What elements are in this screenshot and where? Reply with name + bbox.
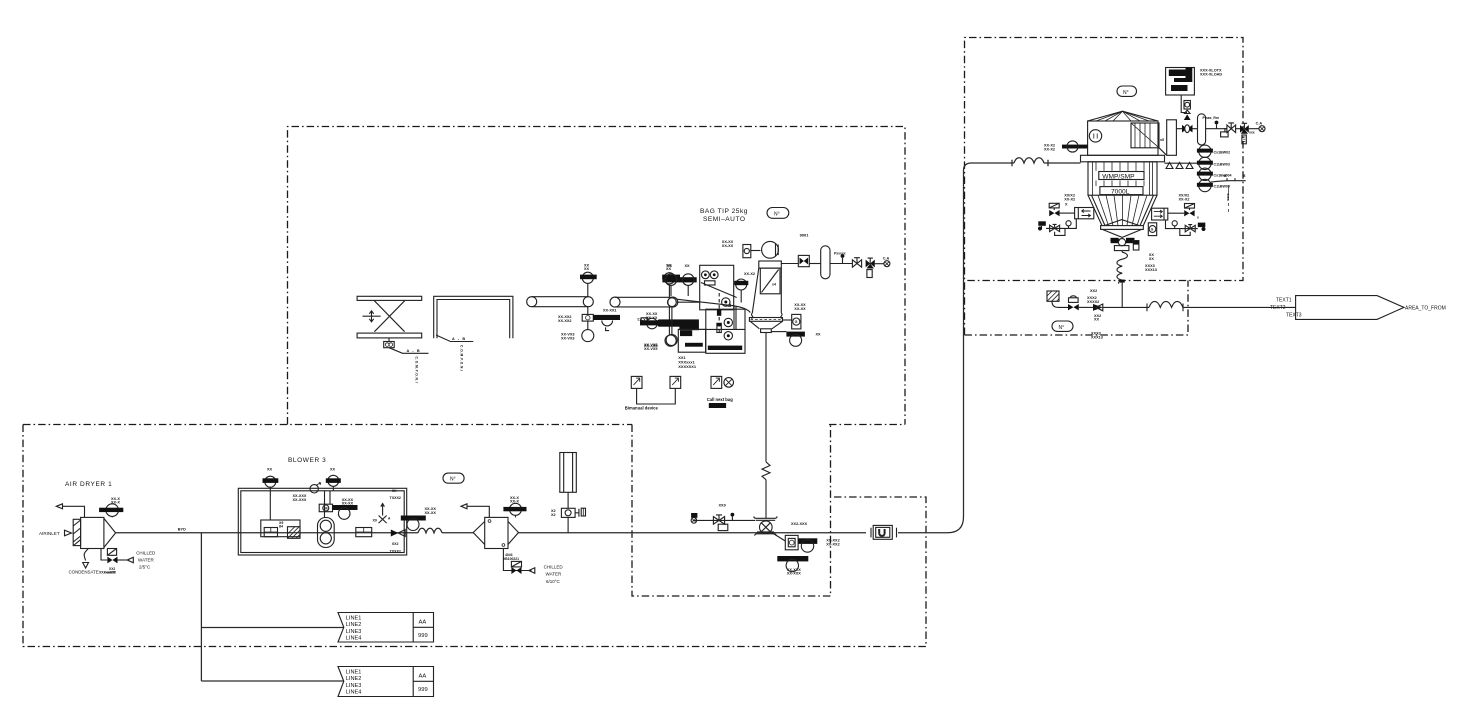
svg-text:LINE2: LINE2 — [346, 676, 362, 682]
wire vessel outlet — [1176, 128, 1182, 130]
svg-text:6/10°C: 6/10°C — [546, 579, 561, 584]
relief triangles — [1184, 110, 1190, 113]
svg-text:C11BW03: C11BW03 — [1214, 162, 1230, 166]
wire chilled water to HX — [503, 549, 531, 571]
svg-text:B: B — [1243, 174, 1246, 178]
motor circle under conveyor2 — [668, 326, 670, 335]
silencer capsule vertical — [821, 246, 830, 279]
bimanual button 2 — [670, 376, 681, 388]
wire chilled water stem — [101, 549, 107, 561]
filter-silencer box 84 — [261, 520, 300, 537]
filter cartridge box w/ diagonal — [1131, 123, 1159, 148]
node pressure dot — [731, 513, 735, 517]
node air inlet arrow — [65, 530, 72, 536]
wire twin drop to motor — [325, 491, 331, 518]
svg-text:XX-X2: XX-X2 — [1044, 147, 1055, 151]
display instrument box — [1166, 68, 1195, 96]
blower lobes pump — [318, 518, 335, 548]
node N oval tag vessel — [1117, 86, 1137, 96]
supply arrow — [529, 568, 535, 573]
instrument bar+circle right of hopper — [786, 332, 805, 337]
vent circle with arrow — [310, 485, 318, 493]
svg-text:N°: N° — [1123, 90, 1129, 96]
box under 3-way — [867, 270, 872, 278]
wire jog from circles to boundary — [1211, 178, 1246, 182]
wire filter outlet to silencer — [781, 263, 798, 265]
svg-text:XX-VX3: XX-VX3 — [561, 336, 575, 340]
valve chilled water (solid) — [107, 557, 117, 564]
solenoid Z box right — [1185, 204, 1195, 209]
wire HX vent with arrow — [467, 506, 489, 517]
check valve — [391, 530, 399, 537]
node purge source — [691, 513, 697, 518]
discharge valve cluster — [1111, 238, 1119, 243]
svg-text:AA: AA — [419, 674, 427, 680]
heat exchanger left cone — [473, 522, 485, 545]
vessel cone — [1088, 195, 1157, 225]
bag filter top plenum — [759, 261, 782, 268]
wire pipe coil to HX left apex — [442, 532, 473, 534]
svg-text:CHILLED: CHILLED — [136, 550, 156, 555]
blower package boundary double box — [238, 488, 406, 555]
valve fluidization right (solid) — [1184, 210, 1194, 216]
svg-text:TXXX2: TXXX2 — [390, 550, 401, 554]
wire vertical drop to LINE flags — [200, 533, 202, 681]
svg-text:N°: N° — [774, 211, 780, 217]
svg-text:999: 999 — [418, 633, 428, 639]
twin instruments top-left of station — [662, 277, 696, 282]
boundary lower strip under vessel box — [965, 281, 1189, 336]
wire condensate drain — [84, 549, 88, 561]
svg-text:G: G — [1151, 228, 1154, 232]
pilot box w/ circle — [1184, 101, 1190, 110]
rotary valve bottom flange — [755, 532, 777, 536]
svg-text:LINE4: LINE4 — [346, 690, 362, 696]
hood enclosure — [434, 296, 513, 338]
wire to exhaust silencer — [1193, 128, 1198, 130]
svg-text:WATER: WATER — [138, 557, 154, 562]
svg-text:LINE4: LINE4 — [346, 636, 362, 642]
svg-text:AA: AA — [419, 620, 427, 626]
SEC-VRIGHT — [1038, 194, 1206, 236]
gauge dot left — [1066, 221, 1071, 226]
svg-text:XX: XX — [267, 468, 273, 472]
wire main air pipe from dryer to HX — [116, 532, 418, 534]
valve gate w/ stem — [852, 260, 861, 267]
instrument circle left lower — [666, 334, 677, 345]
svg-text:X9: X9 — [373, 519, 377, 523]
svg-text:XXXXXX1: XXXXXX1 — [678, 364, 697, 369]
svg-text:XX-X2: XX-X2 — [1064, 198, 1075, 202]
valve transfer 2 (check) — [1093, 304, 1103, 311]
svg-text:Call next bag: Call next bag — [707, 397, 734, 402]
svg-text:WATER: WATER — [546, 572, 562, 577]
SEC-LIFT — [357, 296, 513, 383]
line designation flag 2 — [338, 667, 434, 697]
conveyor black bar bottom — [708, 346, 742, 350]
svg-text:XX-X: XX-X — [111, 501, 120, 505]
svg-text:A - B: A - B — [407, 349, 420, 353]
three-way valve solid — [866, 260, 875, 268]
vessel roof cone — [1088, 111, 1158, 121]
scissor lift X arms — [374, 301, 404, 332]
svg-text:XX-XX2: XX-XX2 — [558, 319, 572, 323]
instrument with black bar beside motor — [333, 505, 358, 510]
svg-text:C11BW05: C11BW05 — [1214, 185, 1230, 189]
motor M box — [319, 504, 332, 512]
wire band to filter-line circles — [1165, 162, 1199, 164]
bag chute slope — [701, 283, 737, 298]
instrument above conveyor1 — [582, 272, 593, 283]
wire drop pipe from bag filter — [765, 333, 767, 462]
load cell triangles under band — [1166, 163, 1193, 169]
svg-text:Pmax_Rm: Pmax_Rm — [1203, 116, 1219, 120]
box under 3-way vent — [1242, 135, 1246, 144]
wire to tee under vessel — [1103, 306, 1149, 308]
node air supply circle-x — [884, 261, 890, 267]
SEC-MID — [691, 333, 896, 576]
heat exchanger HX1 body — [485, 517, 508, 548]
bag filter body — [751, 268, 782, 318]
svg-text:N°: N° — [1059, 325, 1065, 331]
wire stack to valve — [567, 492, 569, 508]
svg-text:LINE1: LINE1 — [346, 616, 362, 622]
svg-text:XX-X2: XX-X2 — [744, 272, 755, 276]
svg-text:XX-XX: XX-XX — [794, 307, 806, 311]
svg-text:X2: X2 — [551, 513, 556, 517]
hose connection right — [1198, 223, 1206, 228]
instrument PI above blower left — [265, 476, 276, 487]
filter cartridge with diagonal — [760, 268, 780, 294]
svg-text:XXX13: XXX13 — [1145, 268, 1157, 272]
wire bimanual bracket — [637, 388, 676, 404]
off-page connector AREA_TO_FROM — [1296, 296, 1404, 320]
support band — [1081, 155, 1165, 162]
actuator S box on rotary valve — [770, 532, 785, 542]
air dryer AD1 body — [81, 517, 104, 548]
sight glass circle — [1089, 130, 1101, 142]
svg-text:WMP/SMP: WMP/SMP — [1102, 173, 1135, 180]
line designation flag 1 — [338, 613, 434, 643]
svg-text:BAG TIP 25kg: BAG TIP 25kg — [700, 208, 748, 215]
svg-text:Cx1BW02: Cx1BW02 — [1214, 150, 1231, 154]
svg-text:LINE3: LINE3 — [346, 683, 362, 689]
actuator flange at right — [575, 509, 579, 517]
svg-text:XX-XX: XX-XX — [646, 316, 658, 320]
up-down stroke symbol — [363, 311, 381, 322]
wire from hatch sq to valves — [1052, 301, 1068, 307]
svg-text:Pxxxxx: Pxxxxx — [834, 252, 846, 256]
svg-text:Bimanual device: Bimanual device — [625, 406, 659, 411]
svg-text:TXXX2: TXXX2 — [390, 496, 401, 500]
wire leader A-B hood — [436, 335, 473, 342]
solenoid box chilled water — [107, 549, 116, 556]
svg-text:XX-XX1: XX-XX1 — [603, 309, 617, 313]
boundary notch middle box — [632, 425, 831, 597]
svg-text:A - B: A - B — [452, 337, 465, 341]
battery limit box BAG TIP area — [288, 127, 906, 425]
svg-text:XX·XX: XX·XX — [1110, 238, 1121, 242]
wire leader A-B lift — [389, 348, 429, 354]
svg-text:x4: x4 — [772, 283, 776, 287]
instrument circle near chute — [736, 279, 747, 290]
wire silencer to vents — [1206, 128, 1227, 130]
roller table box left — [678, 329, 705, 352]
node air circle-x — [1259, 126, 1265, 132]
svg-text:xxx: xxx — [1249, 131, 1255, 135]
lift actuator box — [388, 338, 390, 342]
filter line circle 2 — [1199, 157, 1211, 169]
svg-text:XX-X: XX-X — [510, 500, 519, 504]
transfer line lower strip: hatched square — [1047, 291, 1059, 301]
wire left aeration loop — [1046, 219, 1076, 229]
flex zigzag on drop pipe — [762, 462, 770, 480]
gate valve — [1227, 125, 1236, 133]
svg-text:XX: XX — [685, 264, 691, 268]
cone flange band — [1101, 226, 1144, 230]
air dryer AD1 hatched inlet section — [73, 519, 80, 545]
valve in square (fan discharge) — [798, 255, 809, 266]
svg-text:999: 999 — [418, 687, 428, 693]
valve box with circle — [561, 508, 575, 517]
svg-text:XX9: XX9 — [719, 504, 726, 508]
instrument PI above motor — [328, 475, 339, 486]
svg-text:XXX-XLOAD: XXX-XLOAD — [1200, 72, 1222, 76]
svg-text:TEXT3: TEXT3 — [1286, 313, 1302, 319]
valve transfer 1 (solid) — [1068, 304, 1079, 310]
SEC-PIPES — [116, 158, 1081, 681]
node N oval tag bag tip — [767, 208, 789, 219]
wire riser curve up to vessel inlet line — [948, 163, 1015, 533]
vessel body WMP/SMP 7000L — [1088, 162, 1157, 195]
svg-text:C.A: C.A — [883, 257, 890, 261]
svg-text:XXX13: XXX13 — [1091, 335, 1103, 339]
valve purge with stem — [713, 517, 724, 525]
svg-text:CONDENSATE: CONDENSATE — [69, 570, 99, 575]
outlet housing right — [1167, 120, 1177, 156]
svg-text:AIR DRYER 1: AIR DRYER 1 — [65, 481, 112, 488]
SEC-FLAGS — [338, 613, 434, 697]
filter hopper flange — [749, 318, 782, 322]
svg-text:C.A: C.A — [1256, 121, 1263, 125]
svg-text:LINE3: LINE3 — [346, 629, 362, 635]
SEC-VESSEL — [1044, 68, 1265, 308]
svg-text:N°: N° — [450, 477, 456, 483]
svg-text:XX: XX — [667, 264, 673, 268]
svg-text:XX: XX — [584, 267, 590, 271]
svg-text:TEXT2: TEXT2 — [1270, 305, 1286, 311]
svg-text:x: x — [1197, 216, 1199, 220]
label box WMP/SMP — [1099, 172, 1144, 180]
svg-text:XXXX2: XXXX2 — [1087, 300, 1099, 304]
svg-text:2/5°C: 2/5°C — [139, 565, 151, 570]
wire chilled water supply w/ arrow — [118, 559, 130, 561]
butterfly valve on outlet — [1182, 125, 1193, 133]
svg-text:AIRINLET: AIRINLET — [39, 531, 60, 536]
inline filter hatched square — [288, 527, 301, 539]
instrument TI after blower — [401, 516, 426, 521]
call button 3 w/ lamp — [711, 376, 722, 388]
vibrator on filter — [792, 314, 801, 329]
filter line circle 4 — [1199, 179, 1211, 191]
wire flex coil after blower — [418, 528, 442, 533]
svg-text:XX2: XX2 — [392, 542, 399, 546]
pressure dot on line — [1215, 121, 1219, 125]
svg-text:XX: XX — [816, 333, 822, 337]
sensor circle with dot mid station — [722, 298, 730, 306]
rotary valve RV1 — [760, 521, 773, 534]
instrument bar+circle far left — [647, 318, 658, 329]
wire right aeration loop — [1166, 220, 1198, 229]
svg-text:SEMI–AUTO: SEMI–AUTO — [703, 216, 746, 223]
hose connection left — [1038, 221, 1046, 226]
svg-text:LINE2: LINE2 — [346, 622, 362, 628]
bag dump station lower box — [706, 309, 745, 353]
wire valve to main pipe — [567, 517, 569, 532]
svg-text:AREA_TO_FROM: AREA_TO_FROM — [1405, 306, 1446, 312]
gauge dot right — [1172, 221, 1177, 226]
wire transfer flex coil — [1147, 301, 1183, 311]
svg-text:BYD: BYD — [178, 528, 186, 532]
wire branch to flag 1 — [201, 627, 343, 629]
heat exchanger right cone — [508, 522, 519, 545]
filter line circle 1 — [1199, 145, 1211, 157]
svg-text:XX: XX — [1149, 257, 1155, 261]
svg-text:BLOWER 3: BLOWER 3 — [288, 457, 326, 464]
svg-text:X: X — [1065, 203, 1068, 207]
wire vent line with arrow — [63, 506, 85, 517]
label box 7000L — [1100, 187, 1143, 195]
svg-text:x5: x5 — [1160, 138, 1164, 142]
instrument above conveyor2 — [664, 273, 675, 284]
SEC-AREAFLAG — [1047, 289, 1446, 339]
instrument TI on HX — [510, 503, 522, 515]
rotary valve top flange — [754, 517, 778, 521]
valve chilled water HX (solid) — [511, 567, 521, 574]
inline sight glass body — [873, 525, 892, 539]
solenoid box — [511, 561, 521, 567]
node N oval tag — [443, 473, 464, 483]
svg-text:CHILLED: CHILLED — [544, 565, 564, 570]
svg-text:TEXT1: TEXT1 — [1276, 297, 1292, 303]
svg-text:XX-XX: XX-XX — [722, 244, 734, 248]
drive box under conveyor1 — [587, 307, 589, 315]
conveyor 2 — [615, 297, 673, 307]
vibrator on cone — [1148, 223, 1156, 236]
svg-text:C.O.M.P.O.N.I: C.O.M.P.O.N.I — [415, 357, 419, 384]
wire purge branch to rotary valve — [693, 519, 755, 521]
svg-text:A: A — [388, 517, 391, 521]
relief valve with up arrow — [379, 504, 387, 524]
svg-text:XX2-XXX: XX2-XXX — [791, 522, 808, 526]
svg-text:9001: 9001 — [800, 233, 810, 238]
pressure dot — [841, 254, 845, 258]
svg-text:XX-XXX: XX-XXX — [787, 572, 801, 576]
right fluidization nozzle box — [1152, 208, 1168, 220]
node N oval tag lower — [1052, 321, 1073, 331]
instrument bar+circle right of S box — [798, 538, 817, 544]
inline device box right — [356, 528, 372, 537]
svg-text:XX: XX — [330, 468, 336, 472]
stack silencer vertical — [560, 453, 577, 493]
sensors circles in lower box — [724, 318, 732, 326]
svg-text:XX-XX: XX-XX — [794, 303, 806, 307]
svg-text:XX: XX — [1094, 318, 1100, 322]
bimanual button 1 — [631, 376, 642, 388]
fan aux box — [743, 245, 751, 258]
svg-text:Cx1Bw004: Cx1Bw004 — [1214, 173, 1232, 177]
battery limit bottom-left room boundary — [23, 424, 905, 426]
SEC-BOUND — [23, 38, 1243, 647]
svg-text:XX: XX — [392, 489, 397, 493]
svg-text:84: 84 — [279, 525, 283, 529]
conveyor 1 — [532, 297, 589, 307]
scissor lift bottom platform — [357, 333, 422, 338]
wire coil to vessel — [1048, 162, 1081, 164]
level switches on station — [702, 271, 710, 279]
instrument bar+circle lower — [777, 556, 808, 561]
svg-text:XB100221: XB100221 — [503, 557, 519, 561]
solenoid Z box left — [1049, 203, 1059, 208]
svg-text:XX2: XX2 — [1090, 289, 1097, 293]
motor circle under conveyor1 — [587, 321, 589, 330]
air dryer AD1 outlet cone — [104, 518, 116, 547]
wire discharge down to transfer line — [1121, 283, 1123, 308]
SEC-BAGTIP — [527, 208, 890, 411]
black hopper block left — [658, 319, 699, 326]
wire branch to flag 2 — [201, 680, 343, 682]
svg-text:x-x-x: x-x-x — [1226, 194, 1230, 202]
exhaust silencer capsule — [1198, 114, 1206, 145]
svg-text:XX-XXX: XX-XXX — [293, 498, 307, 502]
bag filter fan — [762, 241, 779, 258]
small circle with hook — [602, 321, 613, 326]
wire coil to area flag — [1183, 306, 1296, 308]
vessel top housing — [1088, 121, 1158, 155]
instrument TI on dryer — [106, 504, 119, 517]
wire main pipe HX to rotary valve to riser — [519, 532, 948, 534]
filter hopper cone — [750, 321, 782, 329]
svg-text:XX-XX: XX-XX — [425, 511, 437, 515]
instrument circle left upper — [668, 298, 677, 307]
inline sight glass flanges — [871, 528, 897, 538]
wire inlet flex coil — [1012, 158, 1048, 166]
SEC-BLOWER — [238, 457, 436, 555]
vertical dashed guide — [718, 293, 720, 333]
left weigh nozzle black bar — [1062, 145, 1088, 149]
instrument small on line — [1069, 298, 1079, 303]
three-way valve vent — [1240, 125, 1249, 133]
three-way valve right w/ bypass — [1185, 225, 1195, 232]
battery limit box top-right (vessel area) — [965, 38, 1244, 336]
instrument black bar under conveyor2 — [668, 307, 670, 320]
svg-text:XX-XX: XX-XX — [342, 502, 354, 506]
SEC-DRYER — [39, 481, 186, 575]
svg-text:XX-XX2: XX-XX2 — [826, 542, 840, 546]
three-way valve left w/ bypass — [1050, 225, 1060, 232]
svg-text:C.O.M.P.O.N.I: C.O.M.P.O.N.I — [460, 345, 464, 372]
bag dump station upper box — [700, 265, 734, 310]
SEC-HX — [443, 453, 586, 584]
chute from conveyor into filter — [677, 299, 751, 329]
valve fluidization left (solid) — [1049, 210, 1059, 216]
svg-text:7000L: 7000L — [1111, 188, 1130, 195]
left fluidization nozzle box — [1075, 208, 1094, 219]
svg-text:XX-X2: XX-X2 — [1179, 198, 1190, 202]
svg-text:XX-XXb: XX-XXb — [644, 344, 658, 348]
discharge diamond — [1102, 229, 1142, 237]
svg-text:G: G — [795, 320, 798, 324]
